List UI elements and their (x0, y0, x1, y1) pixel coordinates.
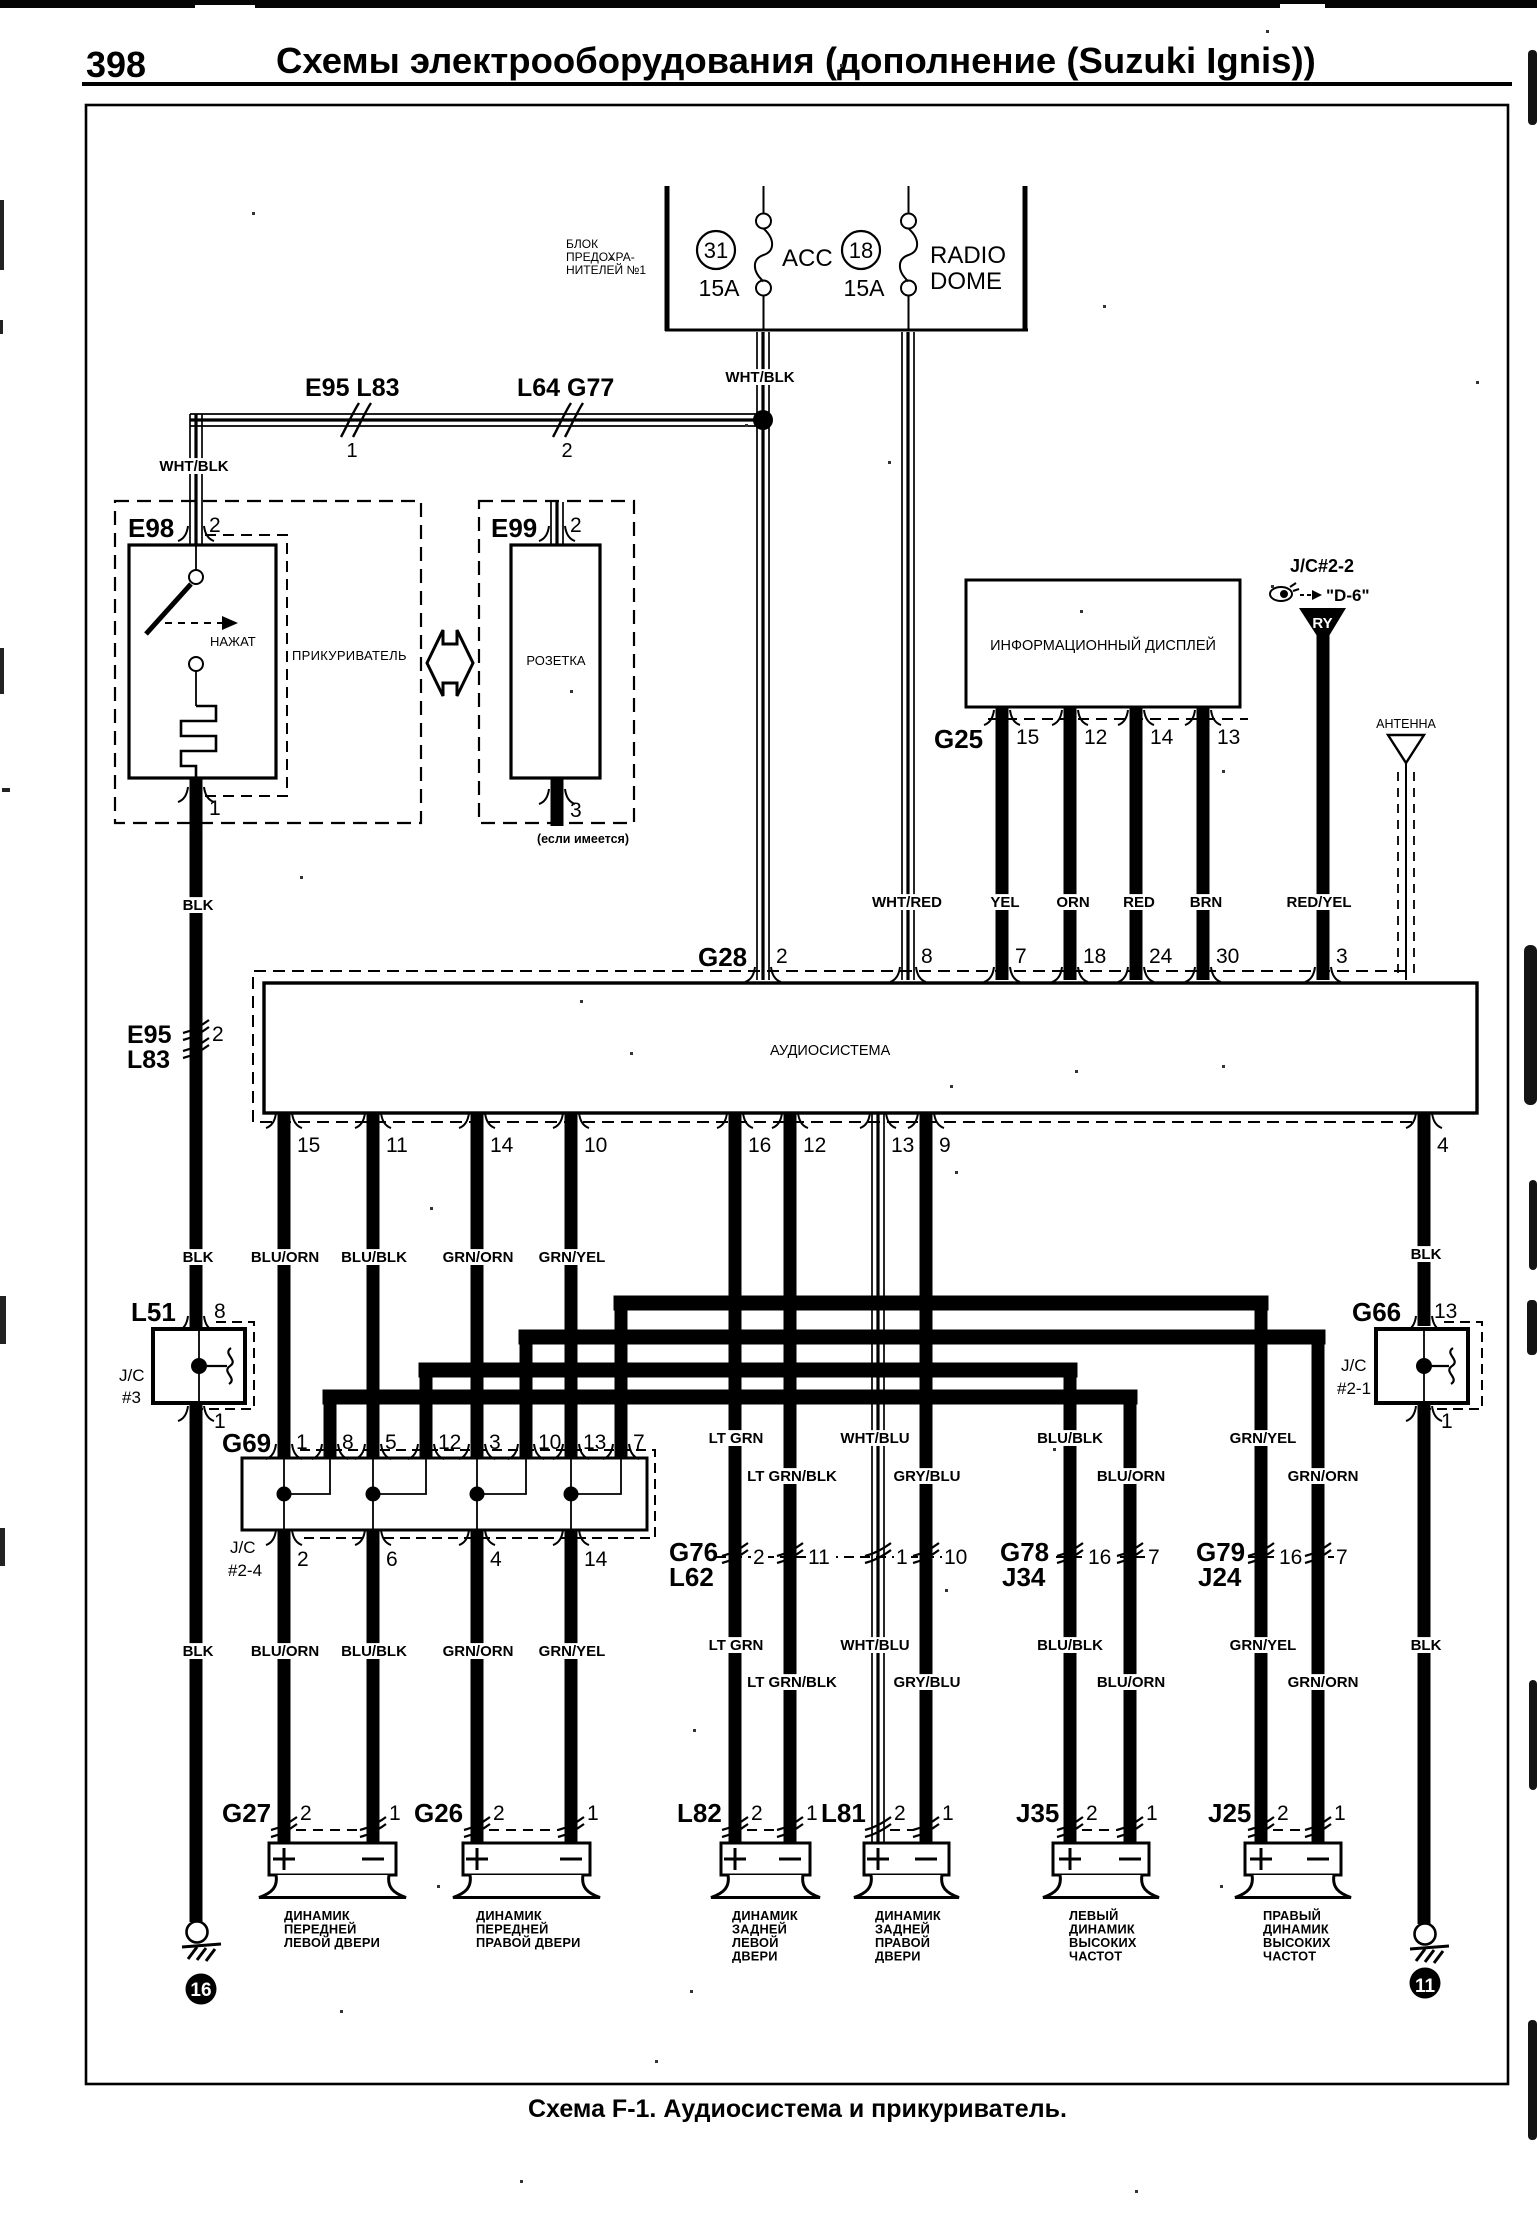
wire wire BLU/BLK to J35 (1064, 1370, 1077, 1843)
wire label GRN/ORN (443, 1249, 514, 1266)
scan artifact: left edge marks (0, 200, 10, 1566)
svg-text:GRN/ORN: GRN/ORN (1288, 1674, 1359, 1691)
svg-text:"D-6": "D-6" (1326, 586, 1370, 605)
lighter heating element (181, 706, 216, 778)
speaker G26 description (476, 1908, 581, 1950)
G28 top pin 18 clip (1052, 967, 1088, 982)
svg-text:15A: 15A (699, 275, 741, 301)
svg-text:16: 16 (190, 1980, 211, 2001)
L51 pin 8 clip (178, 1316, 214, 1331)
wire label BLU/ORN (250, 1249, 320, 1266)
G76/L62 pin 1 (894, 1546, 911, 1567)
svg-text:GRN/YEL: GRN/YEL (1230, 1430, 1297, 1447)
svg-text:НИТЕЛЕЙ №1: НИТЕЛЕЙ №1 (566, 262, 646, 277)
wire label BLU/ORN (1096, 1468, 1166, 1485)
lighter switch lever (146, 584, 191, 634)
svg-text:Схемы электрооборудования (доп: Схемы электрооборудования (дополнение (S… (276, 40, 1316, 81)
wire label GRN/YEL (1228, 1430, 1298, 1447)
svg-text:18: 18 (1083, 945, 1106, 968)
svg-text:1: 1 (942, 1802, 954, 1825)
wire label BLK (182, 1249, 214, 1266)
L51 dashed outline (187, 1322, 254, 1409)
svg-text:5: 5 (385, 1431, 397, 1454)
wire BLK from E98 pin 1 to L51 (190, 778, 203, 1329)
scan artifact: top edge bar (0, 0, 1537, 8)
G28 bottom pin 12 clip (772, 1113, 808, 1128)
svg-text:YEL: YEL (990, 894, 1019, 911)
wire wire BLU/BLK from G69 to speaker (367, 1530, 380, 1843)
G25 pin 15 clip (984, 710, 1020, 725)
svg-text:16: 16 (1279, 1546, 1302, 1569)
information display box (966, 580, 1240, 707)
svg-text:J/C#2-2: J/C#2-2 (1290, 556, 1354, 576)
wire label GRN/YEL (537, 1249, 607, 1266)
svg-text:2: 2 (1277, 1802, 1289, 1825)
wire wire GRN/ORN from G28 to G69 (471, 1114, 484, 1458)
svg-text:15A: 15A (844, 275, 886, 301)
wire label BLU/BLK (339, 1249, 409, 1266)
svg-text:7: 7 (633, 1431, 645, 1454)
svg-text:DOME: DOME (930, 268, 1002, 295)
dashed arrow to D-6 (1300, 594, 1313, 596)
svg-text:13: 13 (583, 1431, 606, 1454)
svg-text:1: 1 (1441, 1410, 1453, 1433)
wire WHT/BLK from fuse 31 to G28 pin 2 (757, 332, 769, 980)
svg-text:2: 2 (753, 1546, 765, 1569)
svg-text:BLK: BLK (183, 897, 214, 914)
wire label ORN (1056, 894, 1089, 911)
svg-text:Схема F-1. Аудиосистема и прик: Схема F-1. Аудиосистема и прикуриватель. (528, 2095, 1067, 2123)
wire riser to G69 pin 7 (615, 1303, 628, 1458)
svg-text:2: 2 (561, 440, 572, 462)
speaker G26 body (453, 1875, 600, 1898)
G79/J24 pin 7 (1334, 1546, 1351, 1567)
wire label GRN/YEL (537, 1643, 607, 1660)
G26 dashed line (489, 1829, 559, 1831)
svg-text:BLU/ORN: BLU/ORN (251, 1249, 319, 1266)
svg-text:GRN/ORN: GRN/ORN (443, 1249, 514, 1266)
G78/J34 dashed line (1056, 1556, 1145, 1558)
svg-text:2: 2 (209, 514, 221, 537)
junction dot node WHT/BLK (753, 410, 773, 430)
J35 dashed line (1082, 1829, 1118, 1831)
svg-text:J35: J35 (1016, 1798, 1059, 1828)
G28 bottom pin 9 clip (908, 1113, 944, 1128)
junction box J/C#3 L51 (153, 1329, 245, 1403)
svg-text:1: 1 (1146, 1802, 1158, 1825)
E98 pin 1 clip (178, 787, 214, 802)
svg-text:E95: E95 (127, 1021, 172, 1049)
svg-text:12: 12 (803, 1134, 826, 1157)
L51 junction dot (191, 1358, 207, 1374)
G69 internal link 373 (373, 1459, 426, 1529)
fuse 18 RADIO DOME 15A symbol (900, 186, 917, 330)
J25 pin 2 clip (1248, 1817, 1274, 1837)
wire wire LT GRN G28 pin16 to L82 (729, 1114, 742, 1843)
svg-text:G26: G26 (414, 1798, 463, 1828)
E99 pin 3 clip (539, 789, 575, 804)
L82 pin 1 clip (777, 1817, 803, 1837)
splice break L83 (183, 1038, 209, 1058)
G76/L62 pin 2 (751, 1546, 768, 1567)
wire label BLU/BLK (339, 1643, 409, 1660)
svg-text:10: 10 (944, 1546, 967, 1569)
J25 pin 1 clip (1305, 1817, 1331, 1837)
svg-text:G69: G69 (222, 1428, 271, 1458)
ground number 16 (186, 1974, 217, 2005)
svg-text:РОЗЕТКА: РОЗЕТКА (526, 653, 586, 668)
svg-text:ПРИКУРИВАТЕЛЬ: ПРИКУРИВАТЕЛЬ (292, 648, 407, 663)
wire wire YEL G25 pin 15 (996, 707, 1009, 980)
wire label WHT/BLU (840, 1637, 910, 1654)
svg-text:4: 4 (490, 1548, 502, 1571)
E99 pin 2 clip (539, 526, 575, 541)
svg-text:1: 1 (587, 1802, 599, 1825)
svg-text:BLU/ORN: BLU/ORN (1097, 1468, 1165, 1485)
svg-text:G27: G27 (222, 1798, 271, 1828)
connector E98 dashed enclosure (115, 501, 421, 823)
G69 top pin 8 clip (312, 1444, 348, 1459)
svg-text:WHT/BLU: WHT/BLU (840, 1430, 909, 1447)
wire label GRY/BLU (892, 1674, 962, 1691)
wire wire BLU/BLK from G28 to G69 (367, 1114, 380, 1458)
svg-text:BRN: BRN (1190, 894, 1223, 911)
G28 bottom pin 11 clip (355, 1113, 391, 1128)
G28 top pin 7 clip (984, 967, 1020, 982)
svg-text:2: 2 (751, 1802, 763, 1825)
wire label LT GRN (706, 1430, 767, 1447)
G28 bottom pin 16 clip (717, 1113, 753, 1128)
wire label BLU/ORN (1096, 1674, 1166, 1691)
svg-text:АУДИОСИСТЕМА: АУДИОСИСТЕМА (770, 1043, 891, 1059)
svg-text:BLK: BLK (1411, 1246, 1442, 1263)
G69 top pin 10 clip (508, 1444, 544, 1459)
wire label GRY/BLU (892, 1468, 962, 1485)
G79/J24 pin 16 break (1248, 1543, 1274, 1563)
wire label RED (1123, 894, 1155, 911)
ground symbol right (1415, 1924, 1436, 1945)
G25 pin 12 clip (1052, 710, 1088, 725)
svg-text:GRY/BLU: GRY/BLU (894, 1468, 961, 1485)
wire wire BRN G25 pin 13 (1197, 707, 1210, 980)
wire riser to G69 pin 12 (420, 1370, 433, 1458)
svg-text:E95 L83: E95 L83 (305, 374, 400, 402)
wire label GRN/ORN (1288, 1468, 1359, 1485)
wire WHT/RED from fuse 18 to G28 pin 8 (902, 332, 914, 980)
ground number 11 (1410, 1968, 1441, 1999)
G28 top pin 24 clip (1118, 967, 1154, 982)
svg-text:BLU/ORN: BLU/ORN (1097, 1674, 1165, 1691)
G76/L62 dashed line (716, 1556, 955, 1558)
wire bar G69 pin7 to GRN/YEL (621, 1296, 1261, 1311)
L51 hook (207, 1348, 233, 1384)
svg-text:J25: J25 (1208, 1798, 1251, 1828)
svg-text:BLK: BLK (183, 1249, 214, 1266)
svg-text:31: 31 (704, 238, 728, 263)
fuse 31 number (697, 231, 735, 269)
splice break E95 (183, 1020, 209, 1040)
svg-text:BLU/ORN: BLU/ORN (251, 1643, 319, 1660)
wire label RED/YEL (1284, 894, 1354, 911)
G66 pin 13 clip (1406, 1316, 1442, 1331)
svg-text:ЧАСТОТ: ЧАСТОТ (1263, 1949, 1316, 1964)
junction box J/C#2-1 G66 (1376, 1329, 1468, 1403)
svg-text:14: 14 (584, 1548, 608, 1571)
speaker L81 description (875, 1908, 941, 1964)
svg-text:3: 3 (570, 799, 582, 822)
svg-text:WHT/RED: WHT/RED (872, 894, 942, 911)
wire wire GRY/BLU G28 pin9 to L81 (920, 1114, 933, 1843)
svg-text:GRN/ORN: GRN/ORN (443, 1643, 514, 1660)
svg-text:LT GRN/BLK: LT GRN/BLK (747, 1674, 837, 1691)
audio system box (264, 983, 1477, 1113)
speaker L81 body (854, 1875, 959, 1898)
E98 inner dashed box (205, 535, 287, 796)
svg-text:2: 2 (212, 1023, 224, 1046)
svg-text:GRN/YEL: GRN/YEL (1230, 1637, 1297, 1654)
svg-text:GRN/ORN: GRN/ORN (1288, 1468, 1359, 1485)
svg-text:1: 1 (296, 1431, 308, 1454)
G76/L62 pin 11 (806, 1546, 836, 1567)
G69 internal link 284 (284, 1459, 330, 1529)
wire WHT/BLK drop to E98 (190, 414, 202, 546)
svg-text:3: 3 (1336, 945, 1348, 968)
svg-text:ПРЕДОХРА-: ПРЕДОХРА- (566, 250, 635, 264)
G69 top pin 1 clip (266, 1444, 302, 1459)
svg-text:1: 1 (389, 1802, 401, 1825)
wire wire GRN/ORN to J25 (1312, 1337, 1325, 1843)
wire label BLU/BLK (1035, 1430, 1105, 1447)
G69 top pin 12 clip (408, 1444, 444, 1459)
wire wire BLU/ORN from G28 to G69 (278, 1114, 291, 1458)
wire label BLK (182, 1643, 214, 1660)
splice break 2 (553, 403, 583, 437)
speaker G26 terminal box (463, 1843, 590, 1875)
L81 pin 1 clip (913, 1817, 939, 1837)
svg-text:8: 8 (214, 1300, 226, 1323)
speaker G27 body (259, 1875, 406, 1898)
svg-text:J24: J24 (1198, 1562, 1242, 1592)
junction box J/C#2-4 G69 (242, 1458, 647, 1530)
svg-text:8: 8 (921, 945, 933, 968)
svg-text:11: 11 (808, 1546, 830, 1569)
G69 internal link 477 (477, 1459, 526, 1529)
svg-text:13: 13 (1434, 1300, 1457, 1323)
wire wire ORN G25 pin 12 (1064, 707, 1077, 980)
speaker G27 terminal box (269, 1843, 396, 1875)
G76/L62 pin 1 break (865, 1543, 891, 1563)
G76/L62 pin 2 break (722, 1543, 748, 1563)
L81 pin 2 clip (865, 1817, 891, 1837)
svg-text:16: 16 (748, 1134, 771, 1157)
G66 dashed outline (1415, 1322, 1482, 1409)
wire label WHT/BLU (840, 1430, 910, 1447)
svg-text:RADIO: RADIO (930, 242, 1006, 269)
wire wire BLK G66 to ground 11 (1418, 1403, 1431, 1924)
svg-text:18: 18 (849, 238, 873, 263)
E98 pin 2 clip (178, 526, 214, 541)
connector G28 dashed enclosure (253, 971, 1420, 1122)
G79/J24 dashed line (1248, 1556, 1337, 1558)
svg-text:2: 2 (1086, 1802, 1098, 1825)
wire label GRN/YEL (1228, 1637, 1298, 1654)
svg-text:30: 30 (1216, 945, 1239, 968)
G69 internal link 571 (571, 1459, 621, 1529)
svg-text:2: 2 (297, 1548, 309, 1571)
speaker G27 description (284, 1908, 380, 1950)
wire bar G69 pin8 to BLU/ORN (330, 1390, 1130, 1405)
G26 pin 2 clip (464, 1817, 490, 1837)
wire BLK from L51 to ground 16 (190, 1403, 203, 1922)
speaker L82 body (711, 1875, 820, 1898)
svg-text:BLU/BLK: BLU/BLK (1037, 1637, 1103, 1654)
G78/J34 pin 7 (1146, 1546, 1163, 1567)
wire wire BLK G28 pin4 to G66 (1418, 1114, 1431, 1326)
G26 pin 1 clip (558, 1817, 584, 1837)
speaker J25 description (1263, 1908, 1331, 1964)
G79/J24 pin 16 (1277, 1546, 1307, 1567)
svg-text:ДВЕРИ: ДВЕРИ (732, 1949, 778, 1964)
J35 pin 1 clip (1117, 1817, 1143, 1837)
G69 bottom pin 6 clip (355, 1530, 391, 1545)
G25 pin 13 clip (1185, 710, 1221, 725)
see-other-page eye symbol (1270, 583, 1299, 601)
svg-text:10: 10 (584, 1134, 607, 1157)
G27 dashed line (296, 1829, 361, 1831)
G69 bottom pin 14 clip (553, 1530, 589, 1545)
wire bar G69 pin10 to GRN/ORN (526, 1330, 1318, 1345)
wire bar G69 pin12 to BLU/BLK (426, 1363, 1070, 1378)
RY funnel symbol (1299, 608, 1346, 636)
svg-text:НАЖАТ: НАЖАТ (210, 634, 256, 649)
G69 bottom pin 2 clip (266, 1530, 302, 1545)
svg-text:2: 2 (894, 1802, 906, 1825)
wire wire RED G25 pin 14 (1130, 707, 1143, 980)
svg-text:4: 4 (1437, 1134, 1449, 1157)
G28 top pin 2 clip (745, 967, 781, 982)
G28 top pin 8 clip (890, 967, 926, 982)
wire wire LT GRN/BLK G28 pin12 to L82 (784, 1114, 797, 1843)
svg-text:ORN: ORN (1056, 894, 1089, 911)
speaker J35 terminal box (1053, 1843, 1149, 1875)
wire label BLU/BLK (1035, 1637, 1105, 1654)
svg-text:2: 2 (300, 1802, 312, 1825)
wire label YEL (989, 894, 1021, 911)
G69 top pin 13 clip (553, 1444, 589, 1459)
G69 dashed outline (300, 1450, 655, 1538)
svg-text:LT GRN: LT GRN (709, 1430, 764, 1447)
G76/L62 pin 11 break (777, 1543, 803, 1563)
svg-text:ДВЕРИ: ДВЕРИ (875, 1949, 921, 1964)
wire wire RED/YEL from J/C#2-2 to G28 pin 3 (1317, 634, 1330, 980)
svg-text:15: 15 (1016, 726, 1039, 749)
svg-text:7: 7 (1336, 1546, 1348, 1569)
svg-text:J/C: J/C (119, 1366, 145, 1385)
svg-text:J34: J34 (1002, 1562, 1046, 1592)
G78/J34 pin 7 break (1117, 1543, 1143, 1563)
svg-text:(если имеется): (если имеется) (537, 832, 629, 846)
fuse 31 ACC 15A symbol (755, 186, 772, 330)
G69 top pin 3 clip (459, 1444, 495, 1459)
G27 pin 2 clip (271, 1817, 297, 1837)
svg-text:1: 1 (209, 797, 221, 820)
svg-text:E99: E99 (491, 513, 537, 543)
svg-text:14: 14 (1150, 726, 1174, 749)
svg-text:E98: E98 (128, 513, 174, 543)
svg-text:10: 10 (538, 1431, 561, 1454)
svg-text:BLU/BLK: BLU/BLK (1037, 1430, 1103, 1447)
G79/J24 pin 7 break (1305, 1543, 1331, 1563)
svg-text:GRN/YEL: GRN/YEL (539, 1643, 606, 1660)
G28 top pin 30 clip (1185, 967, 1221, 982)
J25 dashed line (1273, 1829, 1306, 1831)
wire label BLK (1410, 1246, 1442, 1263)
fuse block label (566, 237, 646, 277)
socket box РОЗЕТКА (511, 545, 600, 778)
wire WHT/BLU G28 pin13 to L81 (872, 1114, 884, 1843)
L82 pin 2 clip (722, 1817, 748, 1837)
G66 pin 1 clip (1406, 1406, 1442, 1421)
svg-text:L51: L51 (131, 1297, 176, 1327)
splice break 1 (341, 403, 371, 437)
svg-text:L62: L62 (669, 1562, 714, 1592)
scan speckles (252, 30, 1479, 2193)
fuse 18 number (842, 231, 880, 269)
G69 top pin 5 clip (355, 1444, 391, 1459)
svg-text:ПРАВОЙ ДВЕРИ: ПРАВОЙ ДВЕРИ (476, 1935, 581, 1950)
svg-text:WHT/BLU: WHT/BLU (840, 1637, 909, 1654)
wire WHT/BLK horizontal feed run (190, 414, 763, 426)
svg-text:BLK: BLK (183, 1643, 214, 1660)
wire label LT GRN (706, 1637, 767, 1654)
lighter lower contact (189, 657, 203, 671)
svg-text:ACC: ACC (782, 245, 833, 272)
speaker L82 terminal box (721, 1843, 810, 1875)
svg-text:БЛОК: БЛОК (566, 237, 598, 251)
lighter switch contact top (195, 545, 197, 570)
G69 top pin 7 clip (603, 1444, 639, 1459)
G76/L62 pin 10 break (913, 1543, 939, 1563)
svg-text:LT GRN/BLK: LT GRN/BLK (747, 1468, 837, 1485)
speaker J35 description (1069, 1908, 1137, 1964)
L82 dashed line (747, 1829, 778, 1831)
svg-text:L83: L83 (127, 1046, 170, 1074)
svg-text:11: 11 (386, 1134, 408, 1157)
wire label BLU/ORN (250, 1643, 320, 1660)
wire riser to G69 pin 10 (520, 1337, 533, 1458)
svg-text:11: 11 (1415, 1976, 1436, 1997)
L51 pin 1 clip (178, 1406, 214, 1421)
antenna lead-in (1405, 763, 1407, 980)
svg-text:1: 1 (896, 1546, 908, 1569)
svg-text:АНТЕННА: АНТЕННА (1376, 717, 1436, 731)
svg-text:WHT/BLK: WHT/BLK (725, 369, 794, 386)
svg-text:LT GRN: LT GRN (709, 1637, 764, 1654)
svg-text:BLK: BLK (1411, 1637, 1442, 1654)
wire wire BLU/ORN from G69 to speaker (278, 1530, 291, 1843)
svg-text:13: 13 (891, 1134, 914, 1157)
svg-text:RED: RED (1123, 894, 1155, 911)
svg-text:RED/YEL: RED/YEL (1286, 894, 1351, 911)
svg-text:#2-1: #2-1 (1337, 1379, 1371, 1398)
G28 bottom pin 10 clip (553, 1113, 589, 1128)
svg-text:16: 16 (1088, 1546, 1111, 1569)
svg-text:#3: #3 (122, 1388, 141, 1407)
svg-text:J/C: J/C (1341, 1356, 1367, 1375)
cigarette lighter element box (129, 545, 276, 778)
speaker J35 body (1043, 1875, 1159, 1898)
svg-text:15: 15 (297, 1134, 320, 1157)
